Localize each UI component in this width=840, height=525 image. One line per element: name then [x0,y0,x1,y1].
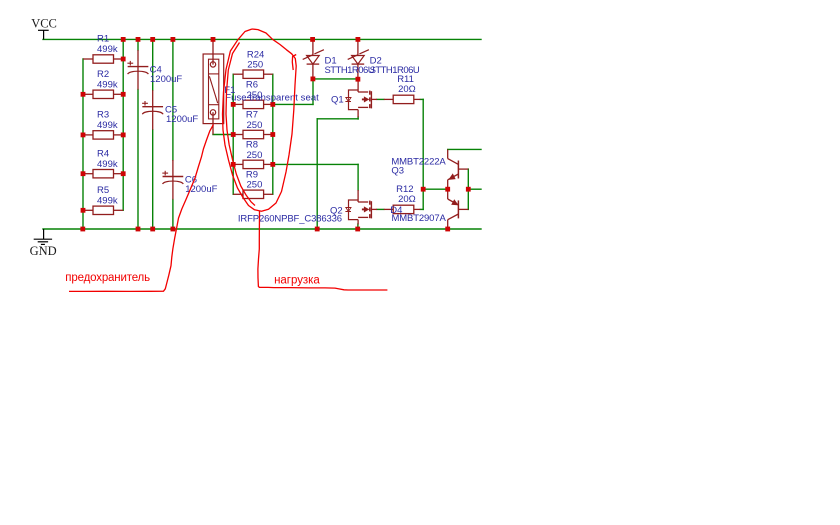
svg-text:R2: R2 [97,69,109,80]
svg-text:MMBT2907A: MMBT2907A [392,213,447,224]
svg-text:GND: GND [30,244,57,258]
svg-text:499k: 499k [97,44,118,55]
svg-text:499k: 499k [97,159,118,170]
svg-text:250: 250 [247,150,263,161]
svg-text:нагрузка: нагрузка [274,274,320,286]
svg-text:499k: 499k [97,196,118,207]
svg-text:20Ω: 20Ω [398,194,416,205]
svg-text:R4: R4 [97,148,109,159]
svg-text:Fuse transparent seat: Fuse transparent seat [225,93,319,104]
svg-text:STTH1R06U: STTH1R06U [325,65,375,76]
svg-text:предохранитель: предохранитель [65,272,150,284]
svg-text:IRFP260NPBF_C386336: IRFP260NPBF_C386336 [238,214,342,225]
svg-text:250: 250 [247,120,263,131]
svg-text:250: 250 [247,60,263,71]
svg-text:250: 250 [247,180,263,191]
svg-text:1200uF: 1200uF [166,114,198,125]
svg-text:R5: R5 [97,185,109,196]
svg-text:R1: R1 [97,34,109,45]
svg-text:Q3: Q3 [391,166,404,177]
svg-text:1200uF: 1200uF [150,74,182,85]
svg-text:20Ω: 20Ω [398,84,416,95]
svg-text:499k: 499k [97,120,118,131]
svg-text:499k: 499k [97,80,118,91]
svg-text:VCC: VCC [31,16,57,30]
svg-text:Q1: Q1 [331,94,344,105]
svg-text:R3: R3 [97,110,109,121]
